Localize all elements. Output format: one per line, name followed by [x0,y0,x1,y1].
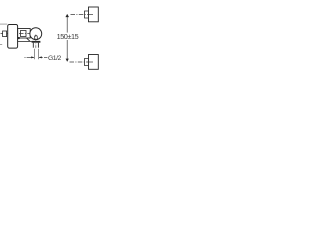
bottom fitting bracket [85,59,89,66]
wall edge line mid-left [0,44,2,46]
top fitting inner centerline [89,14,93,16]
top fitting centerline [71,14,94,16]
vertical dimension line upper segment [66,15,68,33]
union nut [32,41,41,43]
G1/2 dimension line left [27,56,35,58]
bottom fitting centerline [70,61,94,63]
elbow circle [30,28,42,40]
main horizontal centerline [1,32,42,34]
inner pipe in elbow [35,35,38,40]
handle knob [8,25,18,49]
outlet vertical centerline [35,35,37,50]
leader dash to label [44,56,47,58]
svg-text:G1/2: G1/2 [48,55,61,62]
G1/2 arrow right-pointing [31,56,34,58]
body foot dark blob [17,37,19,39]
cartridge [21,31,27,37]
extension line left [33,49,35,59]
svg-text:150±15: 150±15 [57,32,79,41]
wall edge line top-left [0,23,7,25]
extension line right [38,49,40,59]
bottom fitting inner centerline [89,61,93,63]
G1/2 dimension line right [39,56,43,58]
vertical dimension line lower segment [66,40,68,61]
outlet pipe right wall [37,43,39,48]
outlet pipe left wall [32,43,34,48]
left flange [3,31,7,37]
valve body [18,29,31,39]
bottom arrow down [66,59,69,62]
top fitting bracket [85,11,89,18]
body centerline dash [19,32,30,34]
taper diagonal [27,38,31,41]
top arrow up [65,14,69,17]
bottom fitting body [89,55,99,70]
top fitting body [89,7,99,22]
G1/2 arrow left-pointing [39,56,42,58]
bracket under body [18,40,32,42]
